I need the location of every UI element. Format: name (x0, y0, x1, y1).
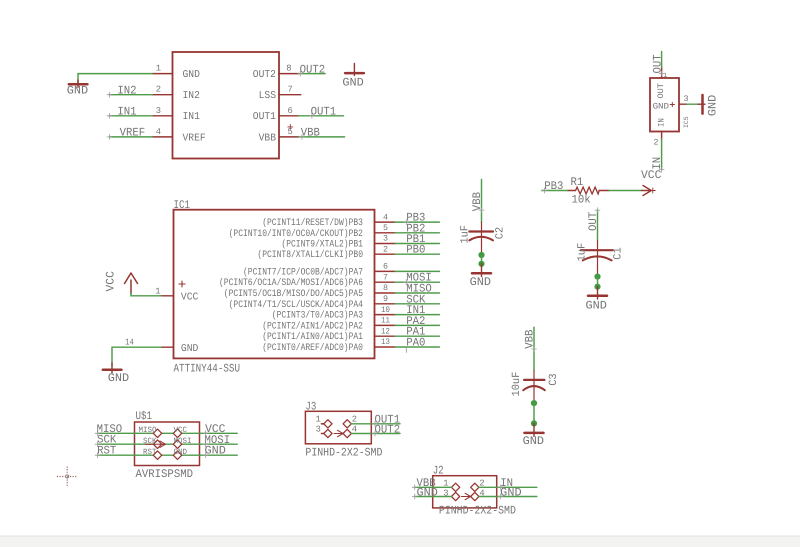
pin 14 GND (IC1) (125, 338, 198, 355)
svg-text:2: 2 (156, 85, 161, 95)
svg-text:3: 3 (156, 106, 161, 116)
svg-text:VCC: VCC (174, 426, 188, 435)
pin 3 GND (regulator, right) (679, 94, 689, 104)
svg-text:GND: GND (205, 445, 226, 458)
IC1 ATTINY44 box (174, 199, 375, 375)
J2 pin4 arrow (462, 493, 471, 499)
wire IN1 (395, 304, 439, 317)
wire OUT2 (298, 63, 325, 76)
svg-text:7: 7 (383, 272, 388, 282)
svg-text:ATTINY44-SSU: ATTINY44-SSU (174, 362, 241, 375)
svg-text:AVRISPSMD: AVRISPSMD (136, 468, 194, 481)
pin 2 IN2 (driver) (153, 85, 200, 102)
svg-text:VCC: VCC (181, 292, 198, 304)
svg-text:12: 12 (381, 326, 390, 336)
svg-text:7: 7 (288, 85, 293, 95)
wire VBB net to C3 (523, 327, 536, 371)
svg-text:1uF: 1uF (577, 243, 589, 262)
wire to ground (regulator) (687, 103, 699, 105)
VCC supply arrow (right, pointing right) (641, 169, 661, 196)
wire GND (J2 row2 left) (412, 486, 451, 499)
svg-text:OUT2: OUT2 (253, 69, 276, 81)
svg-text:9: 9 (383, 294, 388, 304)
wire VBB (299, 127, 345, 140)
wire VCC to pin1 (131, 294, 161, 296)
pin 3 PB1 (281, 234, 395, 250)
ground symbol below C2 (470, 264, 491, 289)
pin 2 IN (regulator, bottom) (654, 132, 662, 148)
svg-text:IN2: IN2 (117, 84, 136, 97)
wire IN net below regulator (651, 139, 664, 172)
svg-text:C3: C3 (548, 373, 560, 385)
svg-text:GND: GND (67, 85, 88, 98)
wire MISO (U$1 row1) (95, 423, 237, 436)
J3 pin1/pin3 lead stubs (322, 424, 324, 434)
ground symbol below C3 (523, 423, 544, 448)
svg-text:GND: GND (174, 448, 188, 457)
svg-text:IC5: IC5 (683, 116, 690, 128)
svg-text:OUT: OUT (651, 54, 664, 73)
svg-text:1: 1 (155, 286, 160, 296)
capacitor C3 10uF (511, 371, 560, 400)
wire SCK (U$1 row2) (95, 434, 237, 447)
svg-text:GND: GND (183, 69, 200, 81)
svg-text:J2: J2 (433, 465, 444, 478)
svg-text:J3: J3 (305, 400, 316, 413)
svg-text:RST: RST (143, 448, 157, 457)
ground symbol top right of driver (342, 64, 363, 90)
wire PA1 (395, 326, 439, 339)
wire GND net to pin1 (78, 74, 153, 84)
wire PA2 (395, 315, 439, 328)
svg-text:(PCINT4/T1/SCL/USCK/ADC4)PA4: (PCINT4/T1/SCL/USCK/ADC4)PA4 (229, 299, 363, 310)
pin 4 VREF (driver) (153, 127, 206, 144)
svg-text:(PCINT1/AIN0/ADC1)PA1: (PCINT1/AIN0/ADC1)PA1 (262, 331, 363, 342)
svg-text:IN1: IN1 (183, 111, 200, 123)
svg-text:(PCINT8/XTAL1/CLKI)PB0: (PCINT8/XTAL1/CLKI)PB0 (257, 249, 363, 260)
svg-text:IN1: IN1 (117, 106, 136, 119)
svg-text:MISO: MISO (139, 426, 157, 435)
svg-text:(PCINT5/OC1B/MISO/DO/ADC5)PA5: (PCINT5/OC1B/MISO/DO/ADC5)PA5 (224, 288, 363, 299)
capacitor C1 1uF (577, 241, 625, 274)
pin 3 IN1 (driver) (153, 106, 200, 123)
svg-text:2: 2 (383, 244, 388, 254)
wire PB1 (395, 233, 439, 246)
svg-text:(PCINT11/RESET/DW)PB3: (PCINT11/RESET/DW)PB3 (262, 217, 363, 228)
pin 7 PA6 (219, 272, 395, 288)
resistor R1 10k (568, 176, 610, 207)
svg-text:(PCINT9/XTAL2)PB1: (PCINT9/XTAL2)PB1 (281, 239, 363, 250)
pin 1 OUT (regulator, top) (662, 67, 668, 79)
svg-text:6: 6 (383, 262, 388, 272)
wire SCK (395, 293, 439, 306)
svg-text:OUT1: OUT1 (311, 106, 337, 119)
wire GND (J2 row2 right) (479, 486, 537, 499)
svg-text:5: 5 (383, 223, 388, 233)
pin 7 LSS (driver) (259, 85, 301, 102)
wire VBB (J2 row1 left) (412, 477, 451, 490)
svg-text:GND: GND (181, 343, 198, 355)
svg-text:GND: GND (108, 372, 129, 385)
wire OUT net to C1 (587, 208, 600, 241)
pin 8 PA5 (224, 283, 395, 299)
svg-text:GND: GND (500, 486, 521, 499)
wire OUT net above regulator (651, 52, 664, 77)
svg-text:MOSI: MOSI (174, 437, 192, 446)
svg-text:OUT2: OUT2 (300, 63, 326, 76)
svg-text:VCC: VCC (641, 169, 661, 182)
svg-text:IN: IN (657, 118, 667, 127)
wire OUT2 (J3) (351, 423, 400, 436)
ground symbol below C1 (586, 287, 608, 313)
wire PB3 to R1 (542, 180, 568, 193)
pin 12 PA1 (262, 326, 395, 342)
pin header J2 box (433, 465, 516, 518)
pin 5 VBB (driver) (259, 124, 299, 144)
pin 2 PB0 (257, 244, 395, 260)
svg-text:C2: C2 (495, 227, 507, 239)
svg-text:(PCINT7/ICP/OC0B/ADC7)PA7: (PCINT7/ICP/OC0B/ADC7)PA7 (243, 266, 363, 277)
svg-text:3: 3 (684, 94, 689, 104)
sheet origin cross (57, 467, 78, 487)
svg-text:GND: GND (417, 486, 438, 499)
svg-text:R1: R1 (571, 176, 584, 189)
U$1 pin-1 arrow (145, 441, 166, 447)
AVR ISP header U$1 box (135, 410, 200, 481)
svg-text:RST: RST (97, 445, 116, 458)
svg-text:(PCINT2/AIN1/ADC2)PA2: (PCINT2/AIN1/ADC2)PA2 (262, 320, 363, 331)
svg-text:14: 14 (125, 338, 134, 348)
ground symbol right of regulator (rotated) (698, 95, 720, 116)
U$1 pads (153, 429, 182, 459)
svg-text:C1: C1 (613, 247, 625, 260)
pin 11 PA2 (262, 316, 395, 332)
svg-text:3: 3 (383, 234, 388, 244)
wire R1 to VCC (609, 190, 641, 192)
svg-text:10uF: 10uF (511, 372, 523, 397)
VCC supply arrow (left of IC1) (105, 271, 138, 294)
wire pin6 (395, 270, 439, 272)
pin 9 PA4 (229, 294, 396, 310)
svg-text:GND: GND (342, 77, 363, 90)
pin header J3 box (305, 400, 382, 459)
svg-text:OUT2: OUT2 (375, 423, 401, 436)
J2 pin numbers (443, 478, 484, 498)
svg-text:6: 6 (288, 106, 293, 116)
svg-text:PINHD-2X2-SMD: PINHD-2X2-SMD (439, 505, 516, 518)
junction dots below C2 (478, 252, 484, 267)
capacitor C2 1uF (460, 222, 507, 253)
J3 pads (324, 420, 352, 438)
pin 6 OUT1 (driver) (253, 106, 299, 123)
pin 10 PA3 (272, 305, 395, 321)
wire RST (U$1 row3) (95, 445, 237, 458)
wire IN2 (107, 84, 153, 97)
pin 1 GND (driver) (153, 64, 200, 81)
svg-text:(PCINT3/T0/ADC3)PA3: (PCINT3/T0/ADC3)PA3 (272, 310, 363, 321)
junction dots below C1 (594, 274, 600, 290)
wire VREF (107, 127, 153, 140)
svg-text:PA0: PA0 (406, 337, 425, 350)
svg-text:1uF: 1uF (460, 225, 472, 244)
svg-text:(PCINT10/INT0/OC0A/CKOUT)PB2: (PCINT10/INT0/OC0A/CKOUT)PB2 (229, 228, 363, 239)
svg-text:13: 13 (381, 337, 390, 347)
svg-text:(PCINT6/OC1A/SDA/MOSI/ADC6)PA6: (PCINT6/OC1A/SDA/MOSI/ADC6)PA6 (219, 277, 363, 288)
svg-text:GND: GND (523, 435, 544, 448)
J2 pads (451, 483, 479, 501)
wire PB3 (395, 212, 439, 225)
wire PB2 (395, 222, 439, 235)
svg-text:VREF: VREF (120, 127, 146, 140)
pin 8 OUT2 (driver) (253, 64, 299, 81)
wire IN (J2 row1 right) (479, 477, 537, 490)
pin 6 PA7 (243, 262, 395, 278)
svg-text:VREF: VREF (183, 132, 206, 144)
wire IN1 (107, 106, 153, 119)
wire pin14 to ground (112, 347, 161, 366)
svg-text:VBB: VBB (301, 127, 320, 140)
motor driver IC box (173, 52, 280, 159)
svg-text:PB3: PB3 (544, 180, 563, 193)
svg-text:VBB: VBB (259, 132, 276, 144)
svg-text:OUT: OUT (656, 83, 666, 98)
svg-text:GND: GND (470, 276, 491, 289)
svg-text:GND: GND (707, 95, 720, 116)
junction dots below C3 (531, 400, 537, 427)
svg-text:IC1: IC1 (174, 199, 191, 212)
svg-text:IN2: IN2 (183, 90, 200, 102)
pin 4 PB3 (262, 212, 395, 228)
U$1 pad labels (139, 426, 192, 457)
wire MOSI (395, 272, 439, 285)
svg-text:2: 2 (352, 415, 357, 425)
wire OUT1 (299, 106, 344, 119)
ground symbol left of driver (67, 80, 88, 98)
svg-text:4: 4 (383, 212, 388, 222)
svg-text:GND: GND (653, 102, 669, 112)
pin 1 VCC (IC1) (155, 281, 198, 304)
voltage regulator IC5 box (650, 78, 690, 132)
svg-text:VBB: VBB (471, 192, 484, 211)
svg-text:1: 1 (156, 64, 161, 74)
svg-text:3: 3 (316, 425, 321, 435)
svg-text:PINHD-2X2-SMD: PINHD-2X2-SMD (305, 446, 382, 459)
svg-text:OUT1: OUT1 (253, 111, 276, 123)
wire MISO (395, 283, 439, 296)
svg-text:4: 4 (156, 127, 161, 137)
svg-text:8: 8 (383, 283, 388, 293)
svg-text:VCC: VCC (105, 271, 118, 291)
svg-text:8: 8 (286, 64, 291, 74)
svg-text:PB0: PB0 (406, 244, 425, 257)
svg-text:10k: 10k (572, 194, 591, 207)
pin 13 PA0 (262, 337, 395, 353)
svg-text:GND: GND (586, 299, 607, 312)
svg-text:10: 10 (381, 305, 390, 315)
pin 5 PB2 (229, 223, 396, 239)
wire VBB net to C2 (471, 180, 484, 223)
svg-text:IN: IN (651, 157, 664, 170)
svg-text:1: 1 (316, 415, 321, 425)
wire PA0 (395, 337, 439, 353)
svg-text:11: 11 (381, 316, 390, 326)
bottom window bar (0, 536, 800, 547)
J3 pin4 arrow (334, 430, 343, 436)
svg-text:VBB: VBB (523, 330, 536, 349)
wire OUT1 (J3) (351, 413, 400, 426)
svg-text:2: 2 (654, 138, 659, 148)
svg-text:U$1: U$1 (136, 410, 153, 423)
svg-text:LSS: LSS (259, 90, 276, 102)
J3 pin numbers (316, 415, 357, 435)
svg-text:(PCINT0/AREF/ADC0)PA0: (PCINT0/AREF/ADC0)PA0 (262, 342, 363, 353)
wire PB0 (395, 244, 439, 257)
svg-text:OUT: OUT (587, 212, 600, 231)
ground symbol below IC1 (103, 363, 129, 385)
